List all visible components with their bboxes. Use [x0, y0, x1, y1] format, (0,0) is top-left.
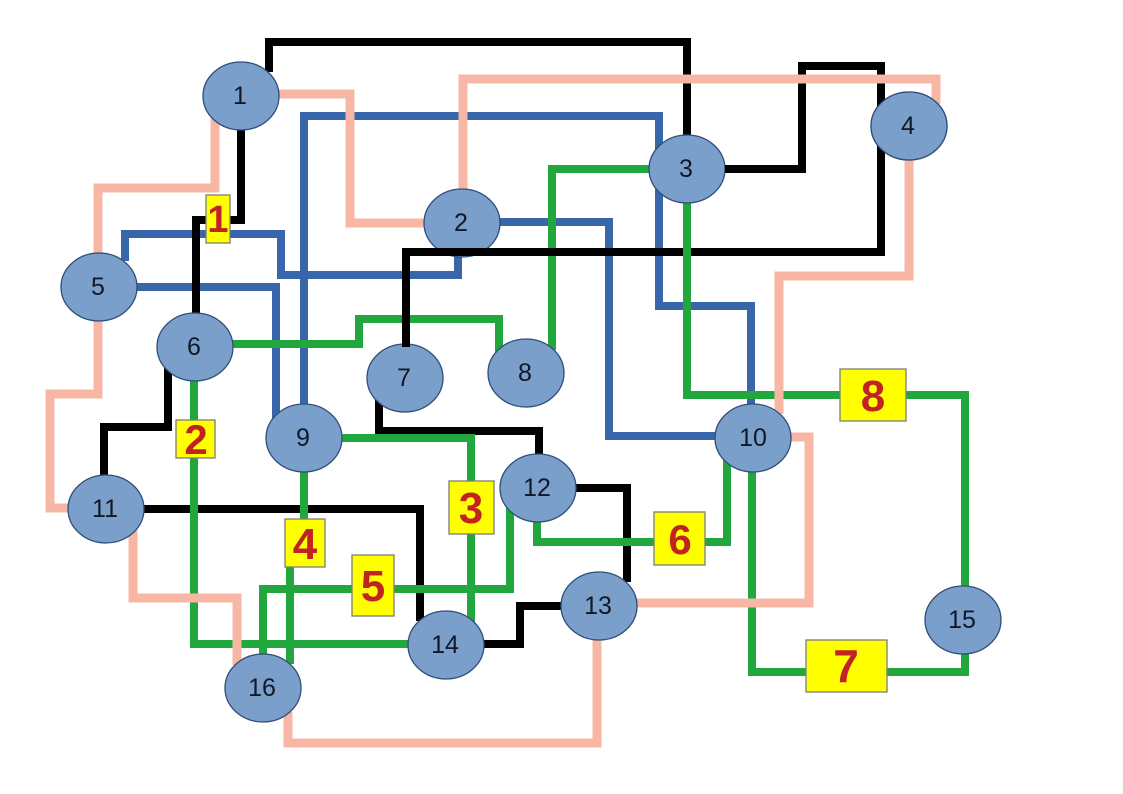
svg-text:7: 7 [833, 640, 859, 692]
svg-text:15: 15 [948, 606, 976, 634]
svg-text:4: 4 [901, 112, 915, 140]
svg-text:14: 14 [431, 631, 459, 659]
svg-text:8: 8 [861, 372, 885, 421]
svg-text:8: 8 [518, 359, 532, 387]
svg-text:2: 2 [184, 416, 207, 463]
svg-text:4: 4 [293, 520, 318, 569]
svg-text:16: 16 [248, 674, 276, 702]
svg-text:5: 5 [91, 273, 105, 301]
svg-text:6: 6 [668, 516, 691, 563]
svg-text:1: 1 [233, 82, 247, 110]
svg-text:9: 9 [296, 424, 310, 452]
svg-text:3: 3 [679, 155, 693, 183]
svg-text:13: 13 [584, 592, 612, 620]
svg-text:10: 10 [739, 424, 767, 452]
svg-text:1: 1 [207, 199, 228, 241]
svg-text:7: 7 [397, 364, 411, 392]
svg-text:5: 5 [361, 562, 385, 611]
svg-text:11: 11 [92, 495, 118, 523]
svg-text:3: 3 [459, 484, 483, 533]
svg-text:12: 12 [523, 474, 551, 502]
svg-text:6: 6 [187, 333, 201, 361]
svg-text:2: 2 [454, 209, 468, 237]
